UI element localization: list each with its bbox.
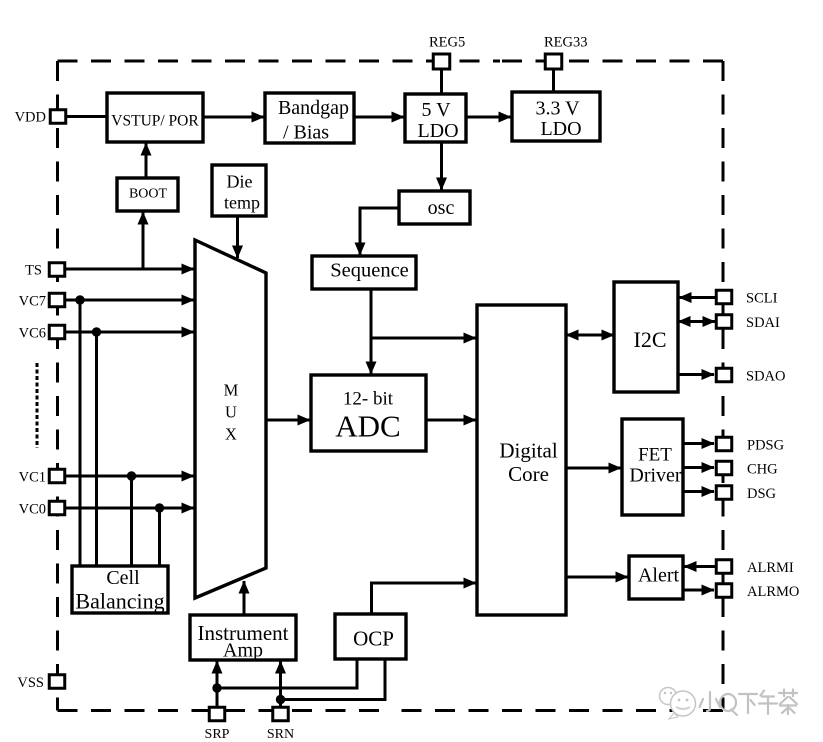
- svg-text:Bandgap: Bandgap: [278, 97, 349, 119]
- svg-text:Balancing: Balancing: [75, 589, 164, 614]
- svg-text:Digital: Digital: [499, 439, 557, 463]
- svg-text:VC6: VC6: [19, 326, 46, 342]
- svg-text:FET: FET: [638, 445, 672, 466]
- svg-text:12- bit: 12- bit: [343, 389, 394, 410]
- svg-text:LDO: LDO: [540, 118, 581, 140]
- svg-text:PDSG: PDSG: [747, 438, 785, 454]
- svg-text:X: X: [225, 425, 237, 444]
- svg-text:BOOT: BOOT: [129, 187, 168, 202]
- svg-text:VSTUP/ POR: VSTUP/ POR: [111, 113, 199, 130]
- svg-text:SDAO: SDAO: [746, 369, 785, 385]
- svg-text:REG5: REG5: [429, 35, 465, 51]
- svg-text:ALRMO: ALRMO: [747, 584, 799, 600]
- svg-text:VC7: VC7: [19, 294, 46, 310]
- svg-text:ADC: ADC: [335, 409, 400, 444]
- svg-text:DSG: DSG: [747, 486, 777, 502]
- svg-text:SRN: SRN: [267, 727, 294, 742]
- svg-text:5 V: 5 V: [421, 99, 451, 121]
- svg-text:SDAI: SDAI: [746, 315, 780, 331]
- svg-text:Amp: Amp: [223, 640, 263, 662]
- svg-text:temp: temp: [224, 193, 260, 213]
- svg-text:osc: osc: [428, 197, 455, 219]
- svg-text:VC0: VC0: [19, 502, 46, 518]
- svg-text:3.3 V: 3.3 V: [535, 98, 580, 120]
- svg-text:CHG: CHG: [747, 462, 778, 478]
- svg-text:Driver: Driver: [629, 465, 682, 487]
- svg-text:VDD: VDD: [15, 110, 46, 126]
- svg-text:SCLI: SCLI: [746, 291, 778, 307]
- svg-text:Core: Core: [508, 462, 549, 486]
- svg-text:OCP: OCP: [353, 627, 394, 651]
- svg-text:Sequence: Sequence: [330, 260, 409, 282]
- svg-text:/ Bias: / Bias: [283, 122, 329, 144]
- svg-text:SRP: SRP: [205, 727, 230, 742]
- svg-text:ALRMI: ALRMI: [747, 560, 794, 576]
- svg-text:U: U: [225, 403, 237, 422]
- svg-text:Alert: Alert: [638, 565, 680, 587]
- svg-text:M: M: [224, 381, 239, 400]
- svg-text:VSS: VSS: [17, 675, 44, 691]
- svg-text:LDO: LDO: [417, 120, 458, 142]
- svg-text:Cell: Cell: [106, 567, 140, 589]
- svg-text:Die: Die: [227, 172, 253, 192]
- svg-text:TS: TS: [25, 263, 42, 279]
- svg-text:VC1: VC1: [19, 470, 46, 486]
- svg-text:REG33: REG33: [544, 35, 588, 51]
- svg-text:I2C: I2C: [634, 327, 667, 352]
